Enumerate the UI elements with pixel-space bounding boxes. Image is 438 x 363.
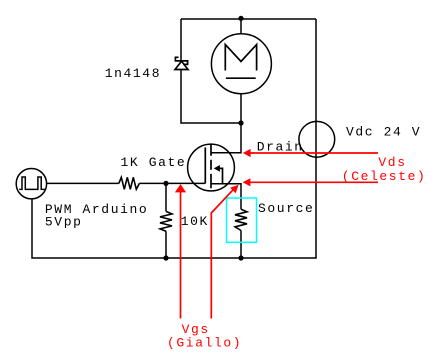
svg-text:1K Gate: 1K Gate [121,155,187,170]
svg-text:(Celeste): (Celeste) [342,169,427,184]
svg-text:(Giallo): (Giallo) [167,336,242,351]
svg-text:Source: Source [258,201,314,216]
svg-text:Vdc 24 V: Vdc 24 V [346,124,421,139]
svg-text:Drain: Drain [257,139,304,154]
svg-text:5Vpp: 5Vpp [45,215,83,230]
svg-text:10K: 10K [181,214,209,229]
svg-text:Vds: Vds [378,155,406,170]
svg-text:1n4148: 1n4148 [105,66,161,81]
